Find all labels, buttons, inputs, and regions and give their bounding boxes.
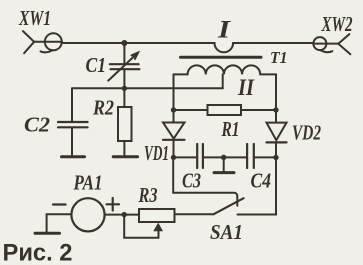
svg-text:R2: R2 xyxy=(92,96,114,120)
svg-text:C1: C1 xyxy=(86,53,107,77)
svg-text:C4: C4 xyxy=(251,169,272,193)
svg-text:VD2: VD2 xyxy=(292,121,321,145)
svg-text:VD1: VD1 xyxy=(144,141,169,165)
svg-text:C2: C2 xyxy=(24,113,51,137)
svg-text:R1: R1 xyxy=(221,117,240,141)
svg-text:II: II xyxy=(237,75,255,100)
svg-text:XW2: XW2 xyxy=(321,12,353,36)
svg-text:R3: R3 xyxy=(138,183,158,207)
svg-text:I: I xyxy=(217,17,232,44)
svg-text:C3: C3 xyxy=(182,169,201,193)
svg-text:XW1: XW1 xyxy=(18,6,51,30)
svg-text:SA1: SA1 xyxy=(210,220,243,244)
svg-text:PA1: PA1 xyxy=(73,171,103,195)
svg-text:Рис. 2: Рис. 2 xyxy=(3,240,73,265)
svg-text:T1: T1 xyxy=(270,48,288,67)
